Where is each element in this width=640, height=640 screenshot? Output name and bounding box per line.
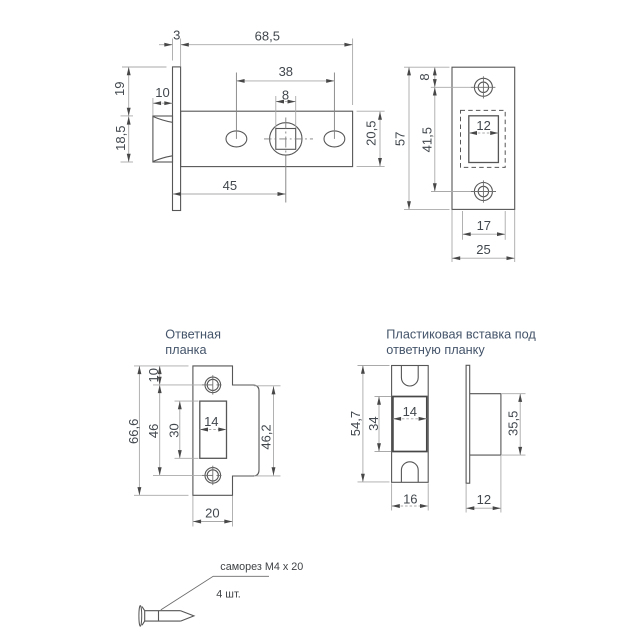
svg-text:45: 45 (223, 178, 237, 193)
faceplate (side) (173, 67, 181, 211)
dim 16: extension lines (391, 483, 393, 510)
dim 68,5: dimension line (181, 44, 353, 46)
latch opening rectangle (469, 116, 499, 163)
svg-text:46,2: 46,2 (259, 424, 274, 449)
svg-text:54,7: 54,7 (348, 411, 363, 436)
dim 35,5: extension lines (502, 393, 526, 395)
svg-text:10: 10 (155, 85, 169, 100)
dim 38: extension lines through oval holes (235, 73, 237, 139)
faceplate outline (452, 67, 515, 209)
svg-text:ответную планку: ответную планку (386, 343, 485, 357)
svg-text:14: 14 (403, 404, 417, 419)
insert side view box (470, 394, 501, 455)
svg-text:14: 14 (204, 414, 218, 429)
dim 34: dimension line (378, 397, 380, 452)
bottom screw hole inner (478, 186, 488, 196)
dim 30: dimension line (179, 401, 181, 458)
dim 19/18,5: extension lines (122, 66, 167, 68)
svg-text:4 шт.: 4 шт. (216, 589, 240, 601)
svg-text:38: 38 (279, 64, 293, 79)
dim 46,2: extension lines (254, 385, 281, 387)
svg-text:25: 25 (476, 242, 490, 257)
centerline horizontal through spindle (264, 138, 313, 140)
dim 10 (strike): dimension line (159, 366, 161, 385)
faceplate bottom hole crosshair (431, 191, 471, 193)
dim 20: dimension line (193, 521, 233, 523)
dim 17: extension lines (462, 211, 464, 240)
screw head cone top (142, 607, 145, 611)
dim 54,7: extension lines (358, 365, 390, 367)
dim 19: dimension line (128, 67, 130, 116)
dim 8 (square): dimension line (276, 101, 296, 103)
screw head (countersunk, side) (139, 606, 142, 627)
svg-text:19: 19 (112, 82, 127, 96)
svg-text:8: 8 (417, 73, 432, 80)
dim 20: extension lines (192, 496, 194, 527)
dim 38: dimension line (236, 80, 334, 82)
svg-text:34: 34 (366, 416, 381, 430)
dim 54,7: dimension line (362, 366, 364, 482)
dim 25: dimension line (452, 257, 515, 259)
bottom screw hole outer (474, 183, 492, 201)
svg-text:3: 3 (173, 28, 180, 43)
svg-text:68,5: 68,5 (255, 28, 280, 43)
dim 14 (strike): dimension line (200, 429, 227, 431)
screw point (181, 611, 194, 621)
insert middle window (thick) (393, 397, 427, 452)
svg-text:20,5: 20,5 (364, 121, 379, 146)
svg-text:20: 20 (205, 506, 219, 521)
dimension graphics (121, 39, 526, 527)
dim 18,5: dimension line (128, 116, 130, 162)
dim 12 (insert side): dimension line (466, 507, 501, 509)
dim 46: dimension line (159, 385, 161, 476)
strike latch hole rectangle (200, 401, 227, 458)
dim 8 (faceplate): dimension line (434, 67, 436, 87)
dim 3: extension lines (172, 39, 174, 61)
dashed pocket rectangle (461, 110, 506, 167)
left oval hole (226, 131, 247, 147)
svg-text:17: 17 (477, 218, 491, 233)
dim 17: dimension line (463, 233, 506, 235)
insert side view thin flange (466, 365, 470, 483)
bolt bevel top (153, 117, 172, 123)
dim 46,2: dimension line (273, 386, 275, 475)
svg-text:35,5: 35,5 (506, 411, 521, 436)
strike bottom screw hole outer (205, 468, 221, 484)
strike bottom screw hole inner (207, 470, 218, 481)
strike top screw hole outer (205, 377, 221, 393)
svg-text:10: 10 (146, 368, 161, 382)
dim 20,5: dimension line (379, 112, 381, 167)
dim 66,6: dimension line (138, 366, 140, 495)
svg-text:30: 30 (167, 423, 182, 437)
dim 68,5: extension line at body right (352, 39, 354, 106)
svg-text:8: 8 (282, 87, 289, 102)
insert top slot (U) (401, 366, 418, 387)
insert front outline (392, 366, 429, 483)
dim 16: dimension line (392, 505, 429, 507)
top screw hole outer (474, 78, 492, 96)
strike plate outline with right tab (193, 366, 259, 495)
dim 25: extension lines (451, 210, 453, 262)
dim 57: extension lines (404, 66, 450, 68)
svg-text:57: 57 (393, 132, 408, 146)
svg-text:Пластиковая вставка под: Пластиковая вставка под (386, 327, 536, 341)
square spindle hole (276, 129, 296, 150)
dim 57: dimension line (408, 67, 410, 209)
dim 8 (square): extension lines (275, 96, 277, 128)
dim 34: extension lines (375, 396, 392, 398)
strike top screw hole inner (207, 379, 218, 390)
faceplate top hole crosshair (431, 86, 471, 88)
dim 20,5: extension lines (357, 110, 385, 112)
right oval hole (324, 131, 345, 147)
svg-text:66,6: 66,6 (126, 419, 141, 444)
svg-text:12: 12 (476, 118, 490, 133)
latch bolt (153, 116, 173, 162)
dim 12 (insert side): extension lines (465, 484, 467, 513)
dim 45: dimension line (173, 193, 286, 195)
spindle circle (270, 123, 302, 155)
svg-text:саморез М4 х 20: саморез М4 х 20 (220, 561, 303, 573)
svg-text:16: 16 (403, 492, 417, 507)
dim 3: left tail w/ arrow (159, 44, 173, 46)
dim 66,6: extension lines (134, 365, 189, 367)
insert bottom slot (arch) (401, 462, 418, 483)
bolt bevel bottom (153, 156, 172, 162)
dim 14 (insert): dimension line (393, 418, 427, 420)
latch case body (181, 111, 353, 166)
leader line (161, 576, 269, 610)
screw head cone bottom (142, 621, 145, 625)
dim 10 (bolt): extension line (152, 98, 154, 115)
svg-text:46: 46 (146, 424, 161, 438)
svg-text:Ответная: Ответная (165, 327, 221, 341)
centerline vertical through spindle down to dim 45 (285, 118, 287, 159)
svg-text:18,5: 18,5 (113, 126, 128, 151)
strike hole centerlines (153, 384, 202, 386)
svg-text:41,5: 41,5 (419, 127, 434, 152)
svg-text:планка: планка (165, 343, 207, 357)
dim 10 (bolt): dimension line (153, 102, 173, 104)
svg-text:12: 12 (477, 492, 491, 507)
shank divider (158, 611, 160, 621)
screw shank (145, 611, 181, 621)
top screw hole inner (478, 82, 488, 92)
dim 30: extension lines (175, 400, 199, 402)
dim 35,5: dimension line (519, 394, 521, 455)
dim 41,5: dimension line (434, 87, 436, 191)
dim 12 (faceplate opening): dimension line (469, 132, 499, 134)
